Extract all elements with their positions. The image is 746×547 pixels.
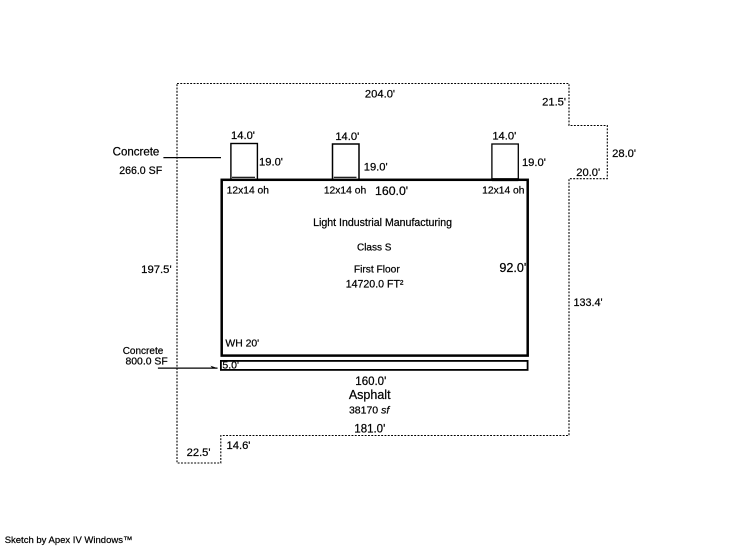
svg-text:19.0': 19.0' xyxy=(522,157,546,169)
overhead door 1 xyxy=(231,144,258,180)
svg-text:12x14 oh: 12x14 oh xyxy=(482,186,525,197)
svg-text:14.0': 14.0' xyxy=(492,131,516,143)
svg-text:First Floor: First Floor xyxy=(354,264,400,275)
svg-text:Class S: Class S xyxy=(357,243,392,254)
svg-text:160.0': 160.0' xyxy=(375,184,408,198)
building outline xyxy=(222,180,528,356)
svg-text:92.0': 92.0' xyxy=(499,261,526,275)
pointer line concrete top xyxy=(163,157,221,159)
concrete strip below building xyxy=(221,361,528,370)
svg-text:38170 sf: 38170 sf xyxy=(349,404,390,416)
svg-text:5.0': 5.0' xyxy=(222,360,239,372)
svg-text:14.0': 14.0' xyxy=(231,130,255,142)
overhead door 3 xyxy=(492,144,518,180)
svg-text:Asphalt: Asphalt xyxy=(349,388,391,402)
svg-text:Concrete: Concrete xyxy=(113,147,160,159)
svg-text:14.6': 14.6' xyxy=(227,440,251,452)
svg-text:266.0 SF: 266.0 SF xyxy=(119,165,163,177)
svg-text:Sketch by Apex IV Windows™: Sketch by Apex IV Windows™ xyxy=(5,535,133,546)
svg-text:Light Industrial Manufacturing: Light Industrial Manufacturing xyxy=(313,217,452,229)
svg-text:21.5': 21.5' xyxy=(542,96,566,108)
svg-text:160.0': 160.0' xyxy=(355,376,386,388)
svg-text:Concrete: Concrete xyxy=(123,346,164,357)
svg-text:20.0': 20.0' xyxy=(576,167,600,179)
svg-text:19.0': 19.0' xyxy=(364,162,388,174)
overhead door 2 xyxy=(333,144,360,180)
svg-text:12x14 oh: 12x14 oh xyxy=(227,185,270,196)
svg-text:22.5': 22.5' xyxy=(187,447,211,459)
svg-text:28.0': 28.0' xyxy=(612,148,636,160)
door 3 thick bottom bar xyxy=(492,178,518,181)
door 2 inner line xyxy=(334,176,357,178)
svg-text:181.0': 181.0' xyxy=(354,423,385,435)
svg-text:WH 20': WH 20' xyxy=(225,338,259,349)
svg-text:800.0 SF: 800.0 SF xyxy=(126,357,168,368)
svg-text:204.0': 204.0' xyxy=(365,88,395,100)
svg-text:14720.0 FT²: 14720.0 FT² xyxy=(346,278,404,290)
svg-text:14.0': 14.0' xyxy=(335,131,359,143)
pointer line concrete bottom with arrow xyxy=(158,367,218,369)
svg-text:12x14 oh: 12x14 oh xyxy=(324,185,367,196)
door 1 inner line xyxy=(232,176,255,178)
lot boundary dashed outline xyxy=(177,84,607,464)
svg-text:133.4': 133.4' xyxy=(574,297,603,309)
svg-text:19.0': 19.0' xyxy=(259,156,283,168)
svg-text:197.5': 197.5' xyxy=(141,264,171,276)
